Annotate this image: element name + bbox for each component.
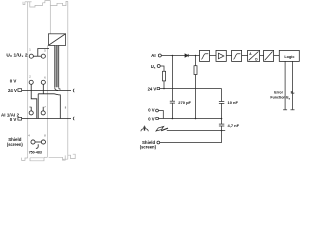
wire chassis rail bbox=[167, 130, 225, 132]
wire jumper terminals 1-5 bbox=[34, 55, 42, 57]
module outline top profile bbox=[23, 1, 68, 7]
svg-text:Function: Function bbox=[270, 96, 285, 100]
terminal shield bbox=[157, 141, 160, 144]
marking box with diagonal bbox=[48, 34, 65, 46]
terminal Ux bbox=[157, 65, 160, 68]
node C2-0V junction bbox=[221, 118, 223, 120]
left figure text labels bbox=[1, 52, 42, 154]
terminal 0V lower marker bbox=[156, 117, 159, 119]
terminal 8 shield bbox=[41, 140, 45, 144]
wire 0V power jumper rail bbox=[22, 118, 71, 120]
wire stub terminal 3 bbox=[30, 107, 32, 111]
0V field marker bbox=[18, 117, 22, 120]
capacitor C3 4.7nF bbox=[219, 123, 224, 125]
contact arc 0V bbox=[73, 117, 74, 120]
capacitor C2 10nF bbox=[219, 101, 224, 103]
svg-text:(screen): (screen) bbox=[7, 142, 24, 147]
svg-text:24 V: 24 V bbox=[148, 87, 157, 92]
terminal 6 bbox=[41, 80, 45, 84]
svg-text:10 nF: 10 nF bbox=[228, 100, 239, 105]
node R2-0V junction bbox=[195, 118, 197, 120]
wire F2-AD bbox=[242, 55, 248, 57]
wire 0V upper elbow bbox=[159, 111, 164, 119]
capacitor C1 270pF bbox=[171, 56, 173, 102]
wire terminal 2 to 0V rail bbox=[31, 85, 37, 119]
svg-text:0 V: 0 V bbox=[10, 79, 17, 84]
wire AD-ISO bbox=[260, 55, 264, 57]
terminal 0V upper bbox=[156, 109, 159, 112]
svg-text:4,7 nF: 4,7 nF bbox=[228, 123, 240, 128]
logic box U3 bbox=[279, 50, 299, 61]
wire 24V rail bbox=[160, 88, 222, 90]
wire ISO-Logic bbox=[274, 55, 280, 57]
contact arc 24V bbox=[73, 89, 74, 92]
A/D converter box U1 bbox=[248, 50, 260, 61]
data contact bar bend to 24V rail bbox=[55, 87, 61, 90]
terminal AI bbox=[158, 54, 161, 57]
node R1-24V junction bbox=[163, 88, 165, 90]
resistor R2 (input divider) bbox=[195, 56, 197, 66]
node 270pF-0V junction bbox=[172, 118, 174, 120]
wire AI input line bbox=[161, 55, 199, 57]
svg-text:AI: AI bbox=[151, 53, 156, 58]
wire R2 to 0V rail bbox=[195, 75, 197, 119]
node AI-270pF junction bbox=[172, 55, 174, 57]
wire riser from jumper to data bar bbox=[38, 49, 49, 57]
wire logic output 1 bbox=[284, 61, 286, 109]
svg-text:Logic: Logic bbox=[284, 55, 294, 59]
svg-text:0 V: 0 V bbox=[10, 117, 17, 122]
svg-text:750-483: 750-483 bbox=[29, 151, 42, 155]
svg-text:(screen): (screen) bbox=[140, 145, 157, 150]
isolation box U2 bbox=[264, 50, 274, 61]
earth symbol bbox=[144, 126, 146, 130]
wire 24V dropper to caps bbox=[221, 89, 223, 102]
wire R1 to 24V rail bbox=[163, 81, 165, 89]
chassis symbol bbox=[156, 126, 164, 131]
filter box F1 bbox=[200, 50, 210, 61]
wire jumper terminals 4-8 bbox=[35, 141, 41, 143]
wire shield to chassis rail bbox=[160, 131, 222, 143]
marking box diagonal bbox=[48, 34, 65, 46]
terminal 1 bbox=[29, 54, 33, 58]
terminal 3 bbox=[29, 111, 33, 115]
svg-text:0 V: 0 V bbox=[148, 117, 154, 122]
wire A1-F2 bbox=[226, 55, 231, 57]
data contact bar (hatched) bbox=[55, 46, 59, 88]
svg-text:0 V: 0 V bbox=[148, 108, 154, 113]
svg-text:270 pF: 270 pF bbox=[178, 100, 191, 105]
module outline bottom profile bbox=[22, 154, 76, 161]
terminal 5 bbox=[41, 54, 45, 58]
diode D1 bbox=[185, 54, 188, 57]
node AI-R2 junction bbox=[195, 55, 197, 57]
24V field marker bbox=[18, 89, 22, 92]
node C3-chassis junction bbox=[221, 130, 223, 132]
wire 0V rail bbox=[158, 118, 221, 120]
resistor R1 (Ux) bbox=[163, 71, 166, 81]
svg-text:Ux 1/Ux 2: Ux 1/Ux 2 bbox=[6, 52, 28, 58]
wire Ux to resistor bbox=[160, 66, 164, 71]
terminal 2 bbox=[29, 80, 33, 84]
wire stub terminal 7 bbox=[42, 107, 44, 111]
svg-text:24 V: 24 V bbox=[8, 88, 17, 93]
terminal 24V marker bbox=[157, 88, 160, 90]
module outline vertical edges bbox=[28, 1, 68, 159]
terminal 7 bbox=[41, 111, 45, 115]
wire terminal 6 to 0V rail bbox=[38, 85, 60, 119]
amplifier box A1 bbox=[216, 50, 226, 61]
wire 24V power jumper rail bbox=[22, 90, 71, 92]
wire F1-A1 bbox=[210, 55, 217, 57]
filter box F2 bbox=[232, 50, 242, 61]
right figure text labels bbox=[140, 52, 295, 150]
terminal 4 shield bbox=[31, 140, 35, 144]
wire logic output 2 bbox=[292, 61, 294, 109]
shield stub hook bbox=[36, 144, 38, 148]
svg-text:Error: Error bbox=[274, 90, 283, 94]
tiny terminal numbers bbox=[28, 48, 67, 138]
